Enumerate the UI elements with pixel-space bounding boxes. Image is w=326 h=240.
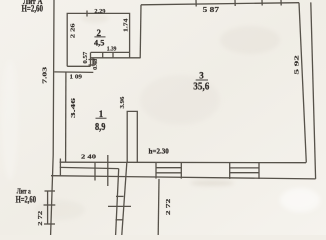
svg-text:1.39: 1.39 (107, 46, 117, 53)
svg-text:8,9: 8,9 (95, 122, 105, 133)
svg-text:1: 1 (99, 109, 104, 119)
svg-text:3: 3 (199, 71, 204, 81)
svg-text:2 72: 2 72 (37, 211, 44, 226)
svg-text:2 72: 2 72 (165, 199, 172, 215)
svg-text:1 09: 1 09 (70, 74, 83, 81)
svg-text:2.29: 2.29 (94, 8, 105, 15)
svg-text:Н=2,60: Н=2,60 (22, 4, 44, 14)
svg-text:Н=2,60: Н=2,60 (16, 195, 37, 205)
svg-text:h=2.30: h=2.30 (149, 146, 169, 155)
svg-text:3.96: 3.96 (119, 97, 126, 109)
svg-text:2 40: 2 40 (81, 154, 96, 161)
svg-text:3.46: 3.46 (70, 98, 77, 118)
svg-text:5 87: 5 87 (203, 6, 220, 14)
svg-text:7.03: 7.03 (42, 67, 49, 84)
svg-text:0.48: 0.48 (92, 59, 99, 70)
svg-text:0.57: 0.57 (82, 52, 89, 64)
svg-text:5 92: 5 92 (294, 55, 301, 74)
svg-text:4,5: 4,5 (94, 38, 105, 48)
svg-text:35,6: 35,6 (193, 82, 209, 93)
svg-text:1.74: 1.74 (123, 17, 130, 32)
svg-text:2: 2 (97, 28, 102, 38)
svg-text:2 26: 2 26 (69, 23, 76, 38)
